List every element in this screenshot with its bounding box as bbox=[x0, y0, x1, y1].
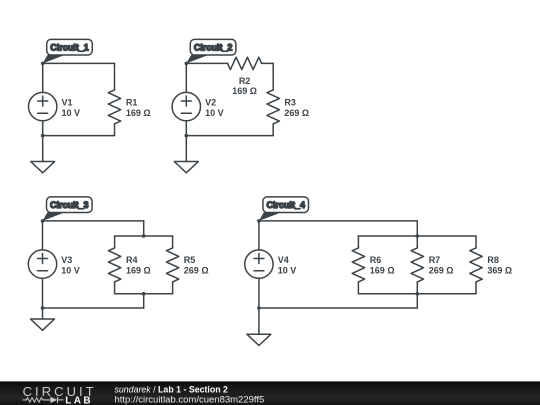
svg-text:R1: R1 bbox=[126, 97, 138, 107]
svg-text:http://circuitlab.com/cuen83m2: http://circuitlab.com/cuen83m229ff5 bbox=[115, 394, 265, 405]
value label R6 169 ohm bbox=[370, 255, 395, 275]
value label R5 269 ohm bbox=[184, 255, 209, 275]
value label V3 10 V bbox=[61, 255, 80, 275]
wire: Circuit_2 right branch top stub bbox=[272, 63, 274, 90]
svg-text:V3: V3 bbox=[61, 255, 72, 265]
resistor R8 bbox=[470, 248, 482, 282]
wire: R6 bottom stub bbox=[357, 282, 359, 294]
voltage source V4 bbox=[245, 250, 273, 278]
resistor R1 bbox=[108, 90, 120, 124]
node: Circuit_4 parallel bottom tee bbox=[416, 292, 420, 296]
svg-text:sundarek / Lab 1 - Section 2: sundarek / Lab 1 - Section 2 bbox=[115, 385, 229, 395]
wire: Circuit_1 bottom rail bbox=[43, 135, 115, 137]
svg-text:269 Ω: 269 Ω bbox=[284, 108, 309, 118]
wire: R8 top stub bbox=[475, 236, 477, 248]
svg-text:V2: V2 bbox=[205, 97, 216, 107]
svg-text:LAB: LAB bbox=[65, 396, 93, 405]
wire: R5 top stub bbox=[172, 236, 174, 248]
node: Circuit_1 top junction bbox=[41, 62, 45, 66]
wire: R4 top stub bbox=[114, 236, 116, 248]
voltage source V3 bbox=[28, 250, 56, 278]
CircuitLab logo wordmark LAB bbox=[65, 396, 93, 405]
wire: R4 bottom stub bbox=[114, 282, 116, 294]
wire: Circuit_4 return down from parallel rail bbox=[416, 294, 418, 308]
wire: Circuit_4 top rail bbox=[259, 220, 417, 222]
svg-text:R8: R8 bbox=[487, 255, 499, 265]
footer bar bbox=[0, 381, 540, 405]
svg-text:Circuit_1: Circuit_1 bbox=[50, 43, 89, 53]
value label R4 169 ohm bbox=[126, 255, 151, 275]
svg-text:169 Ω: 169 Ω bbox=[232, 86, 257, 96]
svg-text:V4: V4 bbox=[278, 255, 289, 265]
wire: R7 top stub bbox=[416, 236, 418, 248]
wire: Circuit_1 right branch top stub bbox=[114, 63, 116, 90]
CircuitLab logo schematic squiggle (resistor and diode) bbox=[23, 397, 64, 403]
svg-text:10 V: 10 V bbox=[278, 265, 297, 275]
svg-text:169 Ω: 169 Ω bbox=[126, 265, 151, 275]
node: Circuit_3 parallel top tee bbox=[142, 234, 146, 238]
svg-text:Circuit_2: Circuit_2 bbox=[194, 43, 233, 53]
wire: Circuit_2 top rail to R2 bbox=[186, 62, 227, 64]
CircuitLab logo wordmark CIRCUIT bbox=[23, 384, 97, 399]
value label R7 269 ohm bbox=[429, 255, 454, 275]
value label R2 169 ohm bbox=[232, 76, 257, 96]
value label R8 369 ohm bbox=[487, 255, 512, 275]
svg-text:R6: R6 bbox=[370, 255, 382, 265]
wire: Circuit_3 bottom rail bbox=[43, 307, 144, 309]
node: Circuit_3 top junction bbox=[41, 219, 45, 223]
wire: V3 positive lead bbox=[42, 221, 44, 250]
wire: Circuit_3 return down from parallel rail bbox=[143, 294, 145, 308]
node: Circuit_2 top junction bbox=[185, 62, 189, 66]
wire: V3 negative lead bbox=[42, 278, 44, 308]
node: Circuit_2 bottom junction bbox=[185, 134, 189, 138]
node: Circuit_4 top junction bbox=[257, 219, 261, 223]
wire: Circuit_1 top rail node A to R1 bbox=[43, 62, 115, 64]
wire: R3 bottom stub bbox=[272, 124, 274, 136]
svg-text:R3: R3 bbox=[284, 97, 296, 107]
wire: V1 positive lead bbox=[42, 63, 44, 92]
wire: Circuit_3 top rail bbox=[43, 220, 144, 222]
svg-text:10 V: 10 V bbox=[61, 265, 80, 275]
value label R1 169 ohm bbox=[126, 97, 151, 117]
resistor R2 bbox=[228, 57, 262, 69]
footer title: sundarek / Lab 1 - Section 2 bbox=[115, 385, 229, 395]
wire: V4 negative lead bbox=[258, 278, 260, 308]
node label Circuit_2 bbox=[186, 39, 236, 63]
wire: V2 negative lead bbox=[185, 121, 187, 136]
node: Circuit_3 parallel bottom tee bbox=[142, 292, 146, 296]
svg-text:269 Ω: 269 Ω bbox=[429, 265, 454, 275]
svg-text:10 V: 10 V bbox=[205, 108, 224, 118]
resistor R4 bbox=[108, 248, 120, 282]
value label V2 10 V bbox=[205, 97, 224, 117]
resistor R7 bbox=[411, 248, 423, 282]
node: Circuit_4 parallel top tee bbox=[416, 234, 420, 238]
value label R3 269 ohm bbox=[284, 97, 309, 117]
footer url bbox=[115, 394, 265, 405]
ground: Circuit_1 bbox=[31, 136, 55, 173]
wire: Circuit_3 parallel bottom rail bbox=[115, 293, 173, 295]
ground: Circuit_2 bbox=[174, 136, 198, 173]
wire: R1 bottom stub bbox=[114, 124, 116, 136]
wire: R5 bottom stub bbox=[172, 282, 174, 294]
svg-text:R2: R2 bbox=[239, 76, 251, 86]
wire: Circuit_3 feed down to parallel top rail bbox=[143, 221, 145, 236]
svg-text:R4: R4 bbox=[126, 255, 138, 265]
svg-text:R5: R5 bbox=[184, 255, 196, 265]
wire: V2 positive lead bbox=[185, 63, 187, 92]
wire: Circuit_2 bottom rail bbox=[186, 135, 273, 137]
node: Circuit_4 bottom junction bbox=[257, 306, 261, 310]
wire: R6 top stub bbox=[357, 236, 359, 248]
svg-text:Circuit_4: Circuit_4 bbox=[266, 200, 305, 210]
wire: R7 bottom stub bbox=[416, 282, 418, 294]
node label Circuit_4 bbox=[259, 197, 309, 221]
node label Circuit_1 bbox=[43, 39, 93, 63]
resistor R6 bbox=[352, 248, 364, 282]
voltage source V2 bbox=[172, 92, 200, 120]
node label Circuit_3 bbox=[43, 197, 93, 221]
wire: Circuit_4 feed down to parallel top rail bbox=[416, 221, 418, 236]
svg-text:R7: R7 bbox=[429, 255, 441, 265]
wire: Circuit_4 parallel top rail bbox=[358, 235, 476, 237]
node: Circuit_1 bottom junction bbox=[41, 134, 45, 138]
ground: Circuit_4 bbox=[247, 308, 271, 346]
wire: V1 negative lead bbox=[42, 121, 44, 136]
value label V4 10 V bbox=[278, 255, 297, 275]
wire: R8 bottom stub bbox=[475, 282, 477, 294]
svg-text:269 Ω: 269 Ω bbox=[184, 265, 209, 275]
value label V1 10 V bbox=[62, 97, 81, 117]
wire: Circuit_4 bottom rail bbox=[259, 307, 417, 309]
svg-text:10 V: 10 V bbox=[62, 108, 81, 118]
node: Circuit_3 bottom junction bbox=[41, 306, 45, 310]
svg-text:169 Ω: 169 Ω bbox=[126, 108, 151, 118]
resistor R3 bbox=[267, 90, 279, 124]
wire: Circuit_4 parallel bottom rail bbox=[358, 293, 476, 295]
resistor R5 bbox=[166, 248, 178, 282]
wire: V4 positive lead bbox=[258, 221, 260, 250]
svg-text:Circuit_3: Circuit_3 bbox=[50, 200, 89, 210]
wire: R2 to top-right corner bbox=[262, 62, 274, 64]
svg-text:V1: V1 bbox=[62, 97, 73, 107]
voltage source V1 bbox=[29, 92, 57, 120]
svg-text:369 Ω: 369 Ω bbox=[487, 265, 512, 275]
svg-text:169 Ω: 169 Ω bbox=[370, 265, 395, 275]
ground: Circuit_3 bbox=[31, 308, 55, 330]
wire: Circuit_3 parallel top rail bbox=[115, 235, 173, 237]
